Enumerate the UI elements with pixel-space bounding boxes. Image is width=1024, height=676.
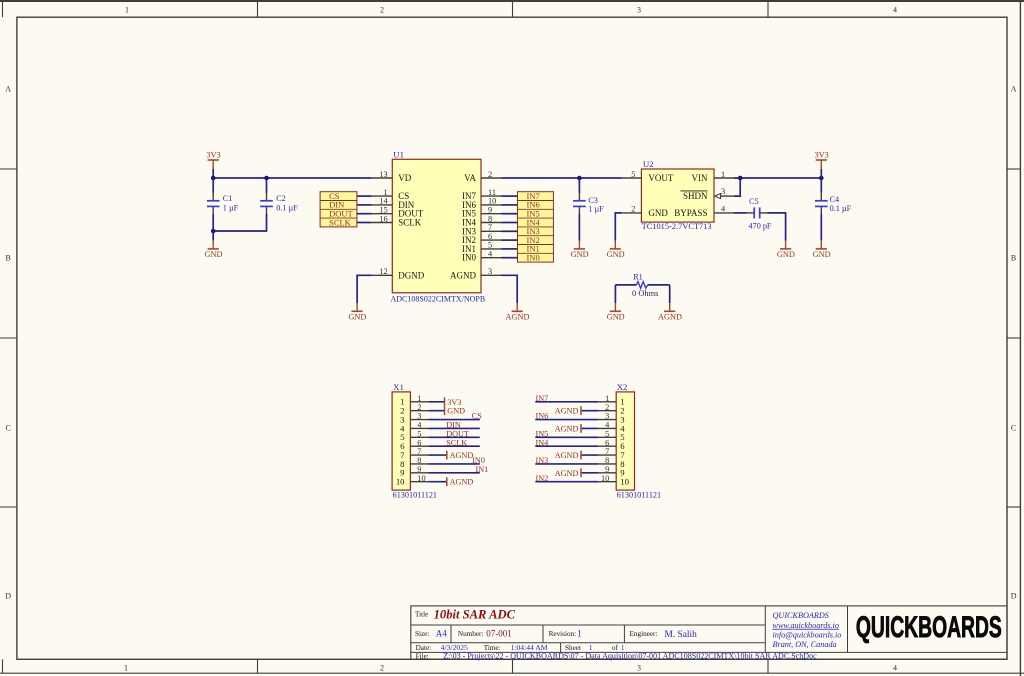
power port AGND bar at X1 pin10 (447, 477, 474, 486)
power port AGND bar at X2 pin 9 (555, 468, 581, 477)
svg-text:1 µF: 1 µF (223, 204, 239, 213)
label C1 value (223, 194, 239, 212)
svg-text:9: 9 (417, 465, 421, 474)
svg-text:M. Salih: M. Salih (665, 630, 698, 640)
svg-text:GND: GND (348, 313, 366, 322)
wire X1 pin10 to AGND (428, 481, 447, 483)
ground AGND under R1 right (658, 303, 682, 321)
net label IN4 (536, 438, 549, 447)
U2 pin 1 VIN (692, 170, 735, 183)
svg-text:1: 1 (384, 188, 388, 197)
wire X1 pin6 net SCLK (428, 445, 480, 447)
X1 pin 6 (400, 438, 428, 451)
svg-text:D: D (5, 592, 11, 601)
label C3 value (588, 196, 604, 214)
svg-text:10: 10 (417, 474, 425, 483)
svg-text:Z:\03 - Projects\22 - QUICKBOA: Z:\03 - Projects\22 - QUICKBOARDS\07 - D… (443, 651, 817, 660)
port DIN (left) (320, 200, 357, 210)
power port AGND bar at X2 pin 4 (555, 424, 581, 433)
wire U1 DGND to ground (357, 275, 372, 303)
capacitor C5 470pF (746, 207, 769, 218)
U1 pin 3 AGND (450, 267, 502, 280)
svg-text:1: 1 (577, 629, 582, 639)
sheet frame outer bottom edge (0, 672, 1024, 674)
svg-text:C1: C1 (223, 194, 233, 203)
svg-text:5: 5 (488, 241, 492, 250)
svg-text:9: 9 (605, 465, 609, 474)
wire X1 pin7 to AGND (428, 454, 447, 456)
svg-text:3: 3 (637, 664, 641, 673)
svg-text:61301011121: 61301011121 (393, 491, 437, 500)
ground AGND under U1 pin3 (506, 303, 530, 321)
net label DIN (446, 421, 461, 430)
svg-text:7: 7 (488, 223, 492, 232)
wire U2 GND pin to ground (615, 213, 621, 241)
svg-text:GND: GND (571, 250, 589, 259)
U2 pin 3 SHDN active-low input (681, 187, 734, 201)
title block Size row (415, 629, 697, 640)
junction at C2 tap (264, 176, 269, 181)
svg-text:14: 14 (379, 197, 388, 206)
X1 pin 10 (396, 474, 428, 487)
svg-text:SHDN: SHDN (683, 191, 708, 201)
X2 pin 1 (598, 394, 624, 407)
ground GND under C4 (813, 241, 831, 259)
svg-text:0 Ohms: 0 Ohms (632, 289, 658, 298)
port CS (left) (329, 191, 340, 201)
frame zone letters left (5, 85, 11, 601)
svg-text:VIN: VIN (692, 173, 708, 183)
net label IN3 (536, 456, 549, 465)
label X1 part number 61301011121 (393, 491, 437, 500)
port IN1 (right) (518, 244, 554, 254)
wire X2 pin 4 to AGND (581, 427, 598, 429)
svg-text:16: 16 (379, 214, 387, 223)
port IN4 (right) (518, 217, 554, 227)
X2 pin 8 (598, 456, 625, 469)
junction VIN/SHDN branch (738, 176, 743, 181)
wire 3V3 rail to U1 VD (213, 177, 372, 179)
company logo QUICKBOARDS (856, 611, 1002, 644)
wire X2 pin 9 to AGND (581, 472, 598, 474)
svg-text:AGND: AGND (450, 451, 474, 460)
wire U1 to port IN3 (502, 230, 518, 232)
svg-text:11: 11 (488, 188, 496, 197)
wire 3V3 right stub (820, 169, 822, 178)
svg-text:SCLK: SCLK (398, 218, 422, 228)
U2 pin 2 GND (621, 205, 668, 218)
svg-text:3: 3 (637, 6, 641, 15)
X2 pin 6 (598, 438, 625, 451)
svg-text:QUICKBOARDS: QUICKBOARDS (856, 611, 1002, 644)
svg-text:IN6: IN6 (536, 412, 549, 421)
net label SCLK (446, 438, 467, 447)
label C5 value (749, 197, 772, 231)
svg-text:IN2: IN2 (536, 474, 549, 483)
wire C5 to ground (768, 213, 786, 241)
svg-text:IN5: IN5 (536, 429, 549, 438)
ground GND under C5 (777, 241, 795, 259)
svg-text:07-001: 07-001 (486, 629, 512, 639)
svg-text:Number:: Number: (458, 630, 484, 638)
X2 pin 7 (598, 447, 625, 460)
svg-text:D: D (1011, 592, 1017, 601)
svg-text:VA: VA (464, 173, 476, 183)
svg-text:U1: U1 (393, 150, 404, 160)
wire port DIN to U1 (357, 204, 372, 206)
wire X2 pin 3 net IN6 (535, 419, 598, 421)
port IN6 (right) (518, 200, 554, 210)
power port AGND bar at X2 pin 2 (555, 406, 581, 415)
svg-text:2: 2 (631, 205, 635, 214)
wire U1 VA to U2 VOUT (502, 177, 622, 179)
U2 pin 5 VOUT (621, 170, 674, 183)
port stack CS/DIN/DOUT/SCLK outline (320, 192, 357, 227)
svg-text:2: 2 (380, 664, 384, 673)
power port 3V3 bar at X1 pin1 (445, 397, 462, 406)
frame row tick marks right band (1007, 169, 1020, 507)
ground GND under U1 DGND (348, 303, 366, 321)
svg-text:A4: A4 (436, 629, 447, 639)
ground GND under R1 left (607, 303, 625, 321)
svg-text:AGND: AGND (450, 478, 474, 487)
svg-text:AGND: AGND (555, 469, 579, 478)
svg-text:www.quickboards.io: www.quickboards.io (773, 621, 839, 630)
power port 3V3 (right) (814, 150, 828, 169)
svg-text:1: 1 (125, 6, 129, 15)
svg-text:2: 2 (380, 6, 384, 15)
svg-text:13: 13 (379, 170, 387, 179)
label X1 designator (393, 382, 404, 392)
svg-text:8: 8 (605, 456, 609, 465)
power port GND bar at X1 pin2 (445, 406, 466, 415)
svg-text:IN4: IN4 (536, 438, 549, 447)
svg-text:TC1015-2.7VCT713: TC1015-2.7VCT713 (642, 222, 712, 231)
svg-text:IN3: IN3 (536, 456, 549, 465)
U1 pin 6 IN2 (462, 232, 502, 245)
svg-text:Engineer:: Engineer: (630, 630, 658, 638)
svg-text:15: 15 (379, 206, 387, 215)
svg-text:VOUT: VOUT (648, 173, 673, 183)
svg-text:Date:: Date: (416, 644, 432, 652)
wire X2 pin 7 to AGND (581, 454, 598, 456)
svg-text:DIN: DIN (446, 421, 461, 430)
svg-text:IN0: IN0 (462, 253, 476, 263)
wire X2 pin 1 net IN7 (535, 401, 598, 403)
svg-text:1: 1 (124, 664, 128, 673)
wire C4 top lead (820, 178, 822, 193)
svg-text:8: 8 (417, 456, 421, 465)
U1 pin 16 SCLK (372, 214, 422, 227)
wire SHDN branch (734, 178, 740, 196)
svg-text:AGND: AGND (450, 270, 476, 280)
wire X2 pin 2 to AGND (581, 410, 598, 412)
X1 pin 2 (400, 403, 428, 416)
wire X1 pin3 net CS (428, 419, 480, 421)
junction at C4 / 3V3 (819, 176, 824, 181)
title text 10bit SAR ADC (434, 608, 516, 622)
wire U1 to port IN5 (502, 213, 518, 215)
label U1 designator (393, 150, 404, 160)
U1 pin 14 DIN (372, 197, 415, 210)
svg-text:AGND: AGND (658, 313, 682, 322)
label U2 designator (643, 159, 654, 169)
net label IN0 (472, 456, 485, 465)
svg-text:GND: GND (813, 250, 831, 259)
power port AGND bar at X1 pin7 (447, 451, 474, 460)
port stack IN7..IN0 outline (518, 192, 554, 262)
svg-text:U2: U2 (643, 159, 654, 169)
X2 pin 10 (598, 474, 629, 487)
wire C4 bottom to ground (820, 214, 822, 241)
svg-text:10: 10 (396, 477, 405, 487)
U1 pin 9 IN5 (462, 206, 502, 219)
junction at C3 tap (577, 176, 582, 181)
svg-text:C: C (6, 424, 11, 433)
svg-text:1: 1 (605, 394, 609, 403)
svg-text:GND: GND (648, 208, 668, 218)
label U1 part number ADC108S022CIMTX/NOPB (391, 295, 486, 304)
X2 pin 2 (598, 403, 624, 416)
op-amp U1 ADC108S022 body (392, 159, 481, 292)
title block outer rectangle (411, 606, 1007, 659)
capacitor C4 (815, 191, 828, 215)
wire port CS to U1 (357, 195, 372, 197)
svg-text:GND: GND (205, 250, 223, 259)
svg-text:4: 4 (893, 6, 897, 15)
U1 pin 1 CS (372, 188, 410, 201)
svg-text:info@quickboards.io: info@quickboards.io (773, 631, 842, 640)
svg-text:C5: C5 (749, 197, 759, 206)
svg-text:2: 2 (488, 170, 492, 179)
svg-text:2: 2 (605, 403, 609, 412)
svg-text:Size:: Size: (415, 630, 429, 638)
svg-text:Revision:: Revision: (549, 630, 577, 638)
connector X1 body (392, 392, 410, 490)
svg-text:AGND: AGND (555, 451, 579, 460)
svg-text:5: 5 (605, 429, 609, 438)
svg-text:VD: VD (398, 173, 411, 183)
svg-text:AGND: AGND (555, 407, 579, 416)
svg-text:AGND: AGND (555, 424, 579, 433)
resistor R1 0 Ohms (615, 273, 669, 299)
title block File row (416, 651, 818, 660)
svg-text:DGND: DGND (398, 270, 424, 280)
svg-text:X2: X2 (617, 382, 628, 392)
wire C2 top lead (266, 178, 268, 193)
svg-text:File:: File: (416, 652, 429, 660)
svg-text:1: 1 (721, 170, 725, 179)
svg-text:3V3: 3V3 (814, 150, 828, 159)
wire R1 right to ground (669, 285, 671, 303)
U1 pin 15 DOUT (372, 206, 424, 219)
title block Date row (416, 643, 625, 652)
net label DOUT (446, 429, 469, 438)
X1 pin 1 (400, 394, 428, 407)
net label IN1 (476, 465, 489, 474)
svg-text:B: B (1011, 254, 1016, 263)
wire X1 pin2 to GND (428, 410, 444, 412)
label C4 value (830, 195, 852, 213)
connector X2 body (616, 392, 634, 490)
port SCLK (left) (320, 217, 357, 227)
wire U1 AGND to ground (502, 275, 518, 303)
U1 pin 10 IN6 (462, 197, 502, 210)
wire U1 to port IN2 (502, 239, 518, 241)
svg-text:0.1 µF: 0.1 µF (276, 204, 298, 213)
svg-text:IN0: IN0 (527, 253, 540, 263)
svg-text:0.1 µF: 0.1 µF (830, 204, 852, 213)
U1 pin 7 IN3 (462, 223, 502, 236)
svg-text:3: 3 (605, 412, 609, 421)
wire X1 pin9 net IN1 (428, 472, 480, 474)
X1 pin 3 (400, 412, 428, 425)
wire BYPASS to C5 (734, 212, 747, 214)
frame row tick marks left band (0, 169, 17, 507)
svg-text:C3: C3 (588, 196, 598, 205)
svg-text:IN0: IN0 (472, 456, 485, 465)
net label IN5 (536, 429, 549, 438)
svg-text:1: 1 (417, 394, 421, 403)
wire C1 top lead (212, 178, 214, 193)
svg-text:4: 4 (893, 664, 897, 673)
X2 pin 9 (598, 465, 624, 478)
wire C3 bottom to ground (578, 214, 580, 241)
label X2 designator (617, 382, 628, 392)
X2 pin 4 (598, 421, 625, 434)
sheet frame outer top edge (0, 0, 1024, 2)
svg-text:IN1: IN1 (476, 465, 489, 474)
wire X2 pin 10 net IN2 (535, 481, 598, 483)
svg-text:8: 8 (488, 214, 492, 223)
capacitor C3 (573, 191, 586, 215)
wire U1 to port IN6 (502, 204, 518, 206)
X1 pin 5 (400, 429, 428, 442)
svg-text:470 pF: 470 pF (749, 222, 772, 231)
X1 pin 4 (400, 421, 428, 434)
svg-text:B: B (6, 254, 11, 263)
wire port DOUT to U1 (357, 213, 372, 215)
junction C1/C2 bottom (211, 229, 216, 234)
svg-text:GND: GND (607, 250, 625, 259)
svg-text:5: 5 (631, 170, 635, 179)
svg-text:6: 6 (417, 438, 421, 447)
X1 pin 9 (400, 465, 428, 478)
svg-text:DOUT: DOUT (446, 429, 469, 438)
svg-text:A: A (5, 85, 11, 94)
U1 pin 12 DGND (372, 267, 425, 280)
X1 pin 8 (400, 456, 428, 469)
wire C2 bottom lead to bus (213, 214, 266, 231)
svg-text:GND: GND (607, 313, 625, 322)
svg-text:SCLK: SCLK (329, 217, 352, 227)
wire U1 to port IN1 (502, 248, 518, 250)
frame zone letters right (1011, 85, 1017, 601)
power port AGND bar at X2 pin 7 (555, 451, 581, 460)
svg-text:3V3: 3V3 (447, 398, 461, 407)
title block vertical dividers (451, 606, 848, 653)
svg-text:7: 7 (605, 447, 609, 456)
svg-text:2: 2 (417, 403, 421, 412)
port DOUT (left) (320, 209, 357, 219)
svg-text:C: C (1011, 424, 1016, 433)
svg-text:3: 3 (417, 412, 421, 421)
ground GND under U2 (607, 241, 625, 259)
svg-text:9: 9 (488, 206, 492, 215)
ground GND under C3 (571, 241, 589, 259)
svg-text:10: 10 (601, 474, 609, 483)
svg-text:GND: GND (447, 407, 465, 416)
U1 pin 13 VD (372, 170, 412, 183)
wire C1 bottom to ground (212, 214, 214, 241)
wire R1 left to ground (614, 285, 616, 303)
svg-text:3: 3 (488, 267, 492, 276)
svg-text:1 µF: 1 µF (588, 205, 604, 214)
title block label Title (415, 610, 428, 618)
capacitor C1 (207, 191, 220, 215)
svg-text:6: 6 (488, 232, 492, 241)
port IN2 (right) (518, 235, 554, 245)
power port 3V3 (left rail) (206, 150, 220, 169)
label U2 part number TC1015-2.7VCT713 (642, 222, 712, 231)
svg-text:61301011121: 61301011121 (617, 491, 661, 500)
svg-text:Brant, ON, Canada: Brant, ON, Canada (773, 640, 837, 649)
svg-text:GND: GND (777, 250, 795, 259)
wire X1 pin5 net DOUT (428, 436, 480, 438)
wire X1 pin8 net IN0 (428, 463, 480, 465)
svg-text:Title: Title (415, 610, 428, 618)
net label IN7 (536, 394, 549, 403)
svg-text:12: 12 (379, 267, 387, 276)
U1 pin 5 IN1 (462, 241, 502, 254)
svg-text:10: 10 (488, 197, 496, 206)
port IN7 (right) (527, 191, 540, 201)
wire U1 to port IN0 (502, 257, 518, 259)
svg-text:IN7: IN7 (536, 394, 549, 403)
svg-text:10bit SAR ADC: 10bit SAR ADC (434, 608, 516, 622)
wire C3 top lead (578, 178, 580, 193)
wire X2 pin 6 net IN4 (535, 445, 598, 447)
wire U2 VIN to 3V3 rail (734, 177, 821, 179)
sheet frame outer right edge (1019, 0, 1021, 676)
frame zone numbers bottom (124, 664, 897, 673)
wire port SCLK to U1 (357, 222, 372, 224)
svg-text:AGND: AGND (506, 313, 530, 322)
wire U1 to port IN7 (502, 195, 518, 197)
wire X2 pin 5 net IN5 (535, 436, 598, 438)
svg-text:3V3: 3V3 (206, 150, 220, 159)
port IN3 (right) (518, 226, 554, 236)
svg-text:A: A (1011, 85, 1017, 94)
wire X1 pin4 net DIN (428, 427, 480, 429)
label C2 value (276, 194, 298, 212)
U2 pin 4 BYPASS (674, 205, 734, 218)
port IN0 (right) (518, 253, 554, 263)
net label IN6 (536, 412, 549, 421)
net label CS (472, 412, 482, 421)
svg-text:BYPASS: BYPASS (674, 208, 707, 218)
ground GND under C1 (205, 241, 223, 259)
port IN5 (right) (518, 209, 554, 219)
svg-text:3: 3 (721, 187, 725, 196)
title block horizontal dividers (411, 625, 1007, 652)
wire X2 pin 8 net IN3 (535, 463, 598, 465)
U1 pin 4 IN0 (462, 250, 502, 263)
wire 3V3 stub to rail (212, 169, 214, 178)
X2 pin 5 (598, 429, 624, 442)
regulator U2 TC1015 body (641, 169, 714, 222)
U1 pin 8 IN4 (462, 214, 502, 227)
